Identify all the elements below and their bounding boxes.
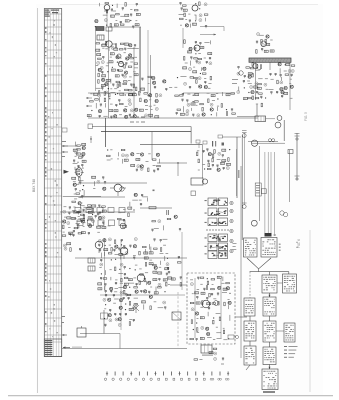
transistor Q17 xyxy=(163,80,166,83)
callout N6 xyxy=(97,61,100,64)
value label xyxy=(129,318,132,321)
resistor R52 xyxy=(90,101,94,102)
coil L54 xyxy=(92,176,96,178)
value label xyxy=(145,108,148,111)
callout N65 xyxy=(288,70,291,73)
wire xyxy=(127,47,133,49)
value label xyxy=(154,104,156,107)
transistor Q43 xyxy=(208,153,211,156)
resistor R163 xyxy=(252,73,253,77)
transistor Q72 xyxy=(281,91,284,94)
coil L53 xyxy=(131,164,135,166)
wire xyxy=(136,153,139,155)
wire xyxy=(83,190,85,196)
capacitor C72 xyxy=(203,150,205,153)
capacitor C2 xyxy=(111,9,113,12)
value label xyxy=(198,169,200,172)
wire xyxy=(216,332,221,334)
value label xyxy=(75,155,77,158)
wire xyxy=(129,202,131,206)
callout N5 xyxy=(111,46,114,49)
capacitor C54 xyxy=(136,169,138,172)
junction xyxy=(83,185,84,186)
left edge parts xyxy=(62,141,66,142)
callout N32 xyxy=(140,167,143,170)
wire xyxy=(144,249,146,254)
junction xyxy=(111,259,112,260)
dial cord run 3 xyxy=(267,152,269,236)
transistor Q63 xyxy=(228,301,231,304)
resistor R99 xyxy=(207,168,211,169)
value label xyxy=(105,47,108,50)
callout N14 xyxy=(198,77,201,80)
resistor R121 xyxy=(180,283,181,287)
resistor R10 xyxy=(184,13,185,17)
value label xyxy=(197,149,199,152)
block: IF chain xyxy=(96,41,139,96)
capacitor C77 xyxy=(216,165,218,168)
junction xyxy=(211,114,212,115)
capacitor C35 xyxy=(100,104,102,107)
coil L37 xyxy=(149,114,153,116)
value label xyxy=(174,86,177,89)
value label xyxy=(133,70,136,73)
junction xyxy=(199,8,200,9)
callout N25 xyxy=(186,110,189,113)
svg-text:B8X 748: B8X 748 xyxy=(32,179,36,192)
block: driver network xyxy=(166,256,182,286)
wire vert IF e xyxy=(147,30,149,93)
coil L58 xyxy=(102,210,106,212)
coil L41 xyxy=(226,94,230,96)
resistor R93 xyxy=(197,152,198,156)
wire aerial stub xyxy=(62,145,78,147)
transistor Q40 xyxy=(98,216,101,219)
capacitor C141 xyxy=(281,95,283,98)
transistor Q11 xyxy=(189,47,192,50)
coil L64 xyxy=(69,232,73,234)
wire xyxy=(279,68,281,74)
coil L20 xyxy=(106,79,110,81)
resistor R33 xyxy=(125,89,129,90)
coil L35 xyxy=(139,109,143,111)
wire xyxy=(99,3,101,6)
junction xyxy=(125,94,126,95)
align step box 5 xyxy=(244,298,255,316)
wire vert V1 anode xyxy=(105,118,107,147)
bus AVC rail xyxy=(92,126,191,128)
pulley top right b xyxy=(275,122,281,128)
value label xyxy=(216,92,218,95)
value label xyxy=(213,297,216,300)
coil L69 xyxy=(222,160,226,162)
capacitor C136 xyxy=(275,73,277,76)
wire xyxy=(158,307,164,309)
value label xyxy=(192,292,194,295)
capacitor C4 xyxy=(130,14,132,17)
capacitor C123 xyxy=(79,248,81,251)
capacitor C115 xyxy=(114,313,116,316)
wire vert IF a xyxy=(108,27,110,118)
resistor R132 xyxy=(211,279,215,280)
sheet top edge xyxy=(60,4,318,6)
resistor R51 xyxy=(156,93,157,97)
resistor R134 xyxy=(226,282,230,283)
callout N42 xyxy=(108,238,111,241)
callout N39 xyxy=(218,152,221,155)
label 225 xyxy=(238,170,239,178)
resistor R141 xyxy=(218,301,219,305)
coil L91 xyxy=(142,301,146,303)
junction xyxy=(92,214,93,215)
callout N44 xyxy=(125,252,128,255)
capacitor C93 xyxy=(100,277,102,280)
callout N48 xyxy=(120,291,123,294)
resistor R155 xyxy=(285,74,289,75)
resistor R153 xyxy=(256,50,257,54)
value label xyxy=(125,105,128,108)
value label xyxy=(200,283,202,286)
block: tuner coupling xyxy=(264,73,293,98)
dial lamp E1 xyxy=(255,116,266,122)
coil L57 xyxy=(88,211,92,213)
dial cord run 5 xyxy=(274,152,276,236)
capacitor C74 xyxy=(222,155,224,158)
junction xyxy=(229,149,230,150)
value label xyxy=(109,244,111,247)
wire xyxy=(79,204,81,209)
wire xyxy=(110,277,112,280)
junction xyxy=(129,268,130,269)
resistor R126 xyxy=(134,304,138,305)
coil L82 xyxy=(153,279,157,281)
wire xyxy=(216,313,221,315)
callout N35 xyxy=(63,210,66,213)
wire xyxy=(134,297,138,299)
transistor Q22 xyxy=(124,109,127,112)
value label xyxy=(228,298,230,301)
coil L36 xyxy=(87,115,91,117)
wire vert af a xyxy=(104,238,106,290)
capacitor C113 xyxy=(109,310,111,313)
callout N61 xyxy=(214,352,217,355)
block: detector block xyxy=(131,153,161,173)
wire xyxy=(96,87,101,89)
resistor R85 xyxy=(83,215,84,219)
wire xyxy=(259,34,264,36)
transistor Q31 xyxy=(73,183,76,186)
coil L12 xyxy=(114,48,118,50)
capacitor C95 xyxy=(104,284,106,287)
block: AM aerial input xyxy=(95,3,141,29)
callout N50 xyxy=(158,220,161,223)
coil L49 xyxy=(72,177,76,179)
coil L31 xyxy=(94,93,98,95)
resistor R107 xyxy=(145,263,146,267)
value label xyxy=(129,76,132,79)
capacitor C69 xyxy=(73,231,75,234)
value label xyxy=(102,47,104,50)
resistor R109 xyxy=(115,267,116,271)
callout N19 xyxy=(129,102,132,105)
resistor R90 xyxy=(128,213,129,217)
cord top run xyxy=(248,140,278,142)
align final box 12 xyxy=(262,369,278,390)
value label xyxy=(133,254,136,257)
resistor R42 xyxy=(190,77,194,78)
tube V1 xyxy=(104,5,110,11)
value label xyxy=(185,62,188,65)
coil L86 xyxy=(98,288,102,290)
resistor R138 xyxy=(190,302,194,303)
resistor R23 xyxy=(128,66,132,67)
coil L77 xyxy=(149,263,153,265)
resistor R112 xyxy=(121,278,122,282)
resistor R157 xyxy=(246,67,250,68)
callout N37 xyxy=(67,222,70,225)
resistor R25 xyxy=(98,73,99,77)
aerial arrow b xyxy=(62,151,68,153)
block: power supply parts xyxy=(190,276,231,341)
capacitor C111 xyxy=(123,297,125,300)
cord arrow blob xyxy=(265,233,272,237)
value label xyxy=(130,61,133,64)
flow arrow 3-6 xyxy=(269,293,271,297)
value label xyxy=(110,87,112,90)
value label xyxy=(64,205,67,208)
wire xyxy=(281,77,283,81)
capacitor C50 xyxy=(75,189,77,192)
block: feedback network xyxy=(130,193,148,206)
capacitor C81 xyxy=(160,240,162,243)
resistor R111 xyxy=(103,278,107,279)
wire xyxy=(120,15,125,17)
wire xyxy=(248,82,252,84)
junction AF node xyxy=(177,162,178,163)
capacitor C45 xyxy=(82,156,84,159)
resistor R139 xyxy=(202,301,203,305)
capacitor C138 xyxy=(291,74,293,77)
coil ferrite xyxy=(76,168,82,177)
flow exit arrow 10 xyxy=(246,365,250,370)
transformer T3 mains xyxy=(201,345,212,353)
capacitor C40 xyxy=(181,99,183,102)
transistor Q5 xyxy=(116,56,119,59)
value label xyxy=(107,62,109,65)
wire ps rail b xyxy=(220,278,222,338)
junction xyxy=(130,20,131,21)
callout N30 xyxy=(125,154,128,157)
coil L80 xyxy=(158,272,162,274)
IF transformer T1 xyxy=(96,27,104,31)
capacitor C24 xyxy=(190,57,192,60)
transistor Q4 xyxy=(129,54,132,57)
coil L8 xyxy=(193,23,197,25)
resistor R2 xyxy=(125,3,126,7)
capacitor C102 xyxy=(178,256,180,259)
bus upper rail xyxy=(88,92,136,94)
resistor R120 xyxy=(177,262,181,263)
wire xyxy=(150,247,152,253)
resistor R148 xyxy=(190,338,194,339)
wire rod drop a xyxy=(254,62,256,100)
coil L28 xyxy=(183,67,187,69)
tube V2 xyxy=(192,5,198,11)
coil L70 xyxy=(221,162,225,164)
resistor R133 xyxy=(207,281,208,285)
value label xyxy=(169,86,172,89)
capacitor C56 xyxy=(157,168,159,171)
wire tone line xyxy=(140,207,172,209)
junction xyxy=(193,329,194,330)
flow V arrow right xyxy=(259,258,271,269)
cord drop right xyxy=(283,120,285,141)
value label xyxy=(202,163,205,166)
resistor R26 xyxy=(98,80,99,84)
junction xyxy=(101,273,102,274)
junction xyxy=(228,338,229,339)
wire bottom horiz xyxy=(80,333,120,335)
value label xyxy=(194,14,196,17)
resistor R156 xyxy=(277,80,278,84)
junction xyxy=(195,53,196,54)
callout N27 xyxy=(197,114,200,117)
resistor R122 xyxy=(167,218,171,219)
capacitor C33 xyxy=(182,94,184,97)
capacitor C62 xyxy=(69,207,71,210)
resistor R29 xyxy=(117,84,118,88)
resistor R114 xyxy=(144,278,145,282)
callout N66 xyxy=(291,70,294,73)
tube V8b driver xyxy=(137,274,145,282)
resistor R59 xyxy=(231,93,235,94)
capacitor C23 xyxy=(194,48,196,51)
transistor Q101 xyxy=(214,301,219,306)
capacitor C43 xyxy=(176,113,178,116)
value label xyxy=(77,161,79,164)
block: coupling parts xyxy=(151,215,181,232)
value label xyxy=(223,327,225,330)
relay switch S2 xyxy=(191,178,203,185)
value label xyxy=(159,266,161,269)
wire lamp bus xyxy=(237,115,259,117)
capacitor C51 xyxy=(81,196,83,199)
coil L3 xyxy=(136,13,140,15)
capacitor C117 xyxy=(125,313,127,316)
wire xyxy=(74,167,76,170)
capacitor C83 xyxy=(123,246,125,249)
wire xyxy=(77,221,82,223)
sheet bottom edge xyxy=(8,395,333,397)
junction xyxy=(195,3,196,4)
wire AF coupling xyxy=(157,162,187,164)
value label xyxy=(118,211,121,214)
resistor R77 xyxy=(107,155,111,156)
value label xyxy=(106,64,109,67)
value label xyxy=(134,56,137,59)
callout N24 xyxy=(210,103,213,106)
callout N4 xyxy=(199,19,202,22)
block: IF amplifier xyxy=(183,40,212,89)
value label xyxy=(258,68,261,71)
callout N1 xyxy=(104,19,107,22)
flow drop to box4 xyxy=(288,272,290,274)
wire xyxy=(271,78,274,80)
wire xyxy=(145,281,147,285)
value label xyxy=(124,51,126,54)
resistor R92 xyxy=(214,150,215,154)
capacitor C116 xyxy=(119,313,121,316)
value label xyxy=(266,88,269,91)
bus anode rail xyxy=(75,257,187,259)
capacitor C88 xyxy=(100,259,102,262)
align note box 9 xyxy=(284,323,295,342)
wire xyxy=(105,270,107,275)
capacitor C78 xyxy=(223,167,225,170)
coil L90 xyxy=(129,308,133,310)
wire xyxy=(146,198,148,202)
junction xyxy=(135,269,136,270)
capacitor C26 xyxy=(196,61,198,64)
resistor R101 xyxy=(143,246,147,247)
callout N54 xyxy=(118,323,121,326)
transistor Q19 xyxy=(144,99,147,102)
capacitor C130 xyxy=(208,308,210,311)
wire xyxy=(228,305,230,309)
value label xyxy=(120,282,123,285)
coil hatched Lb xyxy=(88,266,95,271)
wire xyxy=(110,79,112,84)
wire chassis dashed xyxy=(177,292,179,348)
capacitor C94 xyxy=(158,279,160,282)
capacitor C98 xyxy=(105,291,107,294)
value label xyxy=(149,259,152,262)
capacitor C12 xyxy=(124,48,126,51)
capacitor C5 xyxy=(120,22,122,25)
value label xyxy=(78,215,80,218)
transistor Q73 xyxy=(248,75,251,78)
wire xyxy=(258,78,262,80)
value label xyxy=(116,19,118,22)
value label xyxy=(193,66,195,69)
capacitor C109 xyxy=(113,295,115,298)
capacitor C91 xyxy=(124,273,126,276)
capacitor C29 xyxy=(189,87,191,90)
callout N58 xyxy=(190,283,193,286)
coil L83 xyxy=(163,279,167,281)
resistor R21 xyxy=(134,63,138,64)
resistor R87 xyxy=(74,227,78,228)
coil L9 xyxy=(102,44,106,46)
aerial arrow big xyxy=(64,170,70,174)
resistor R41 xyxy=(202,73,206,74)
label LP Dx xyxy=(130,117,134,118)
block: lamp feed xyxy=(248,63,263,100)
capacitor C119 xyxy=(104,324,106,327)
cord eyelet top left xyxy=(242,134,246,138)
value label xyxy=(135,19,137,22)
capacitor C44 xyxy=(192,114,194,117)
coil L39 xyxy=(195,94,199,96)
resistor R84 xyxy=(77,211,81,212)
resistor R62 xyxy=(200,103,204,104)
resistor R96 xyxy=(212,158,213,162)
callout N45 xyxy=(100,263,103,266)
junction xyxy=(125,303,126,304)
bus lower rail xyxy=(60,211,135,213)
value label xyxy=(197,331,200,334)
value label xyxy=(92,211,95,214)
